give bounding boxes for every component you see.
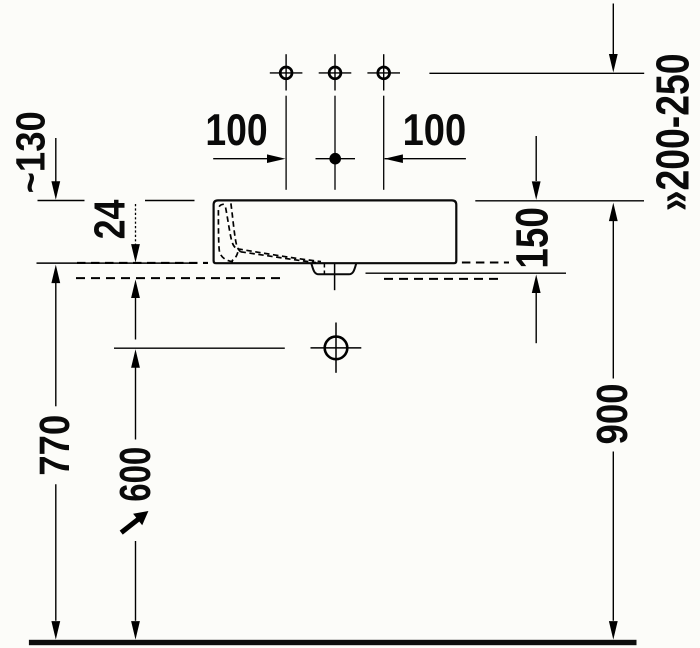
svg-text:100: 100 bbox=[205, 106, 267, 155]
svg-text:600: 600 bbox=[111, 447, 160, 502]
svg-text:150: 150 bbox=[507, 207, 558, 268]
svg-text:»200-250: »200-250 bbox=[647, 54, 699, 212]
svg-text:24: 24 bbox=[86, 199, 135, 239]
svg-text:100: 100 bbox=[403, 106, 467, 155]
svg-text:770: 770 bbox=[31, 415, 79, 476]
svg-text:~130: ~130 bbox=[8, 111, 54, 193]
svg-text:900: 900 bbox=[589, 384, 637, 445]
